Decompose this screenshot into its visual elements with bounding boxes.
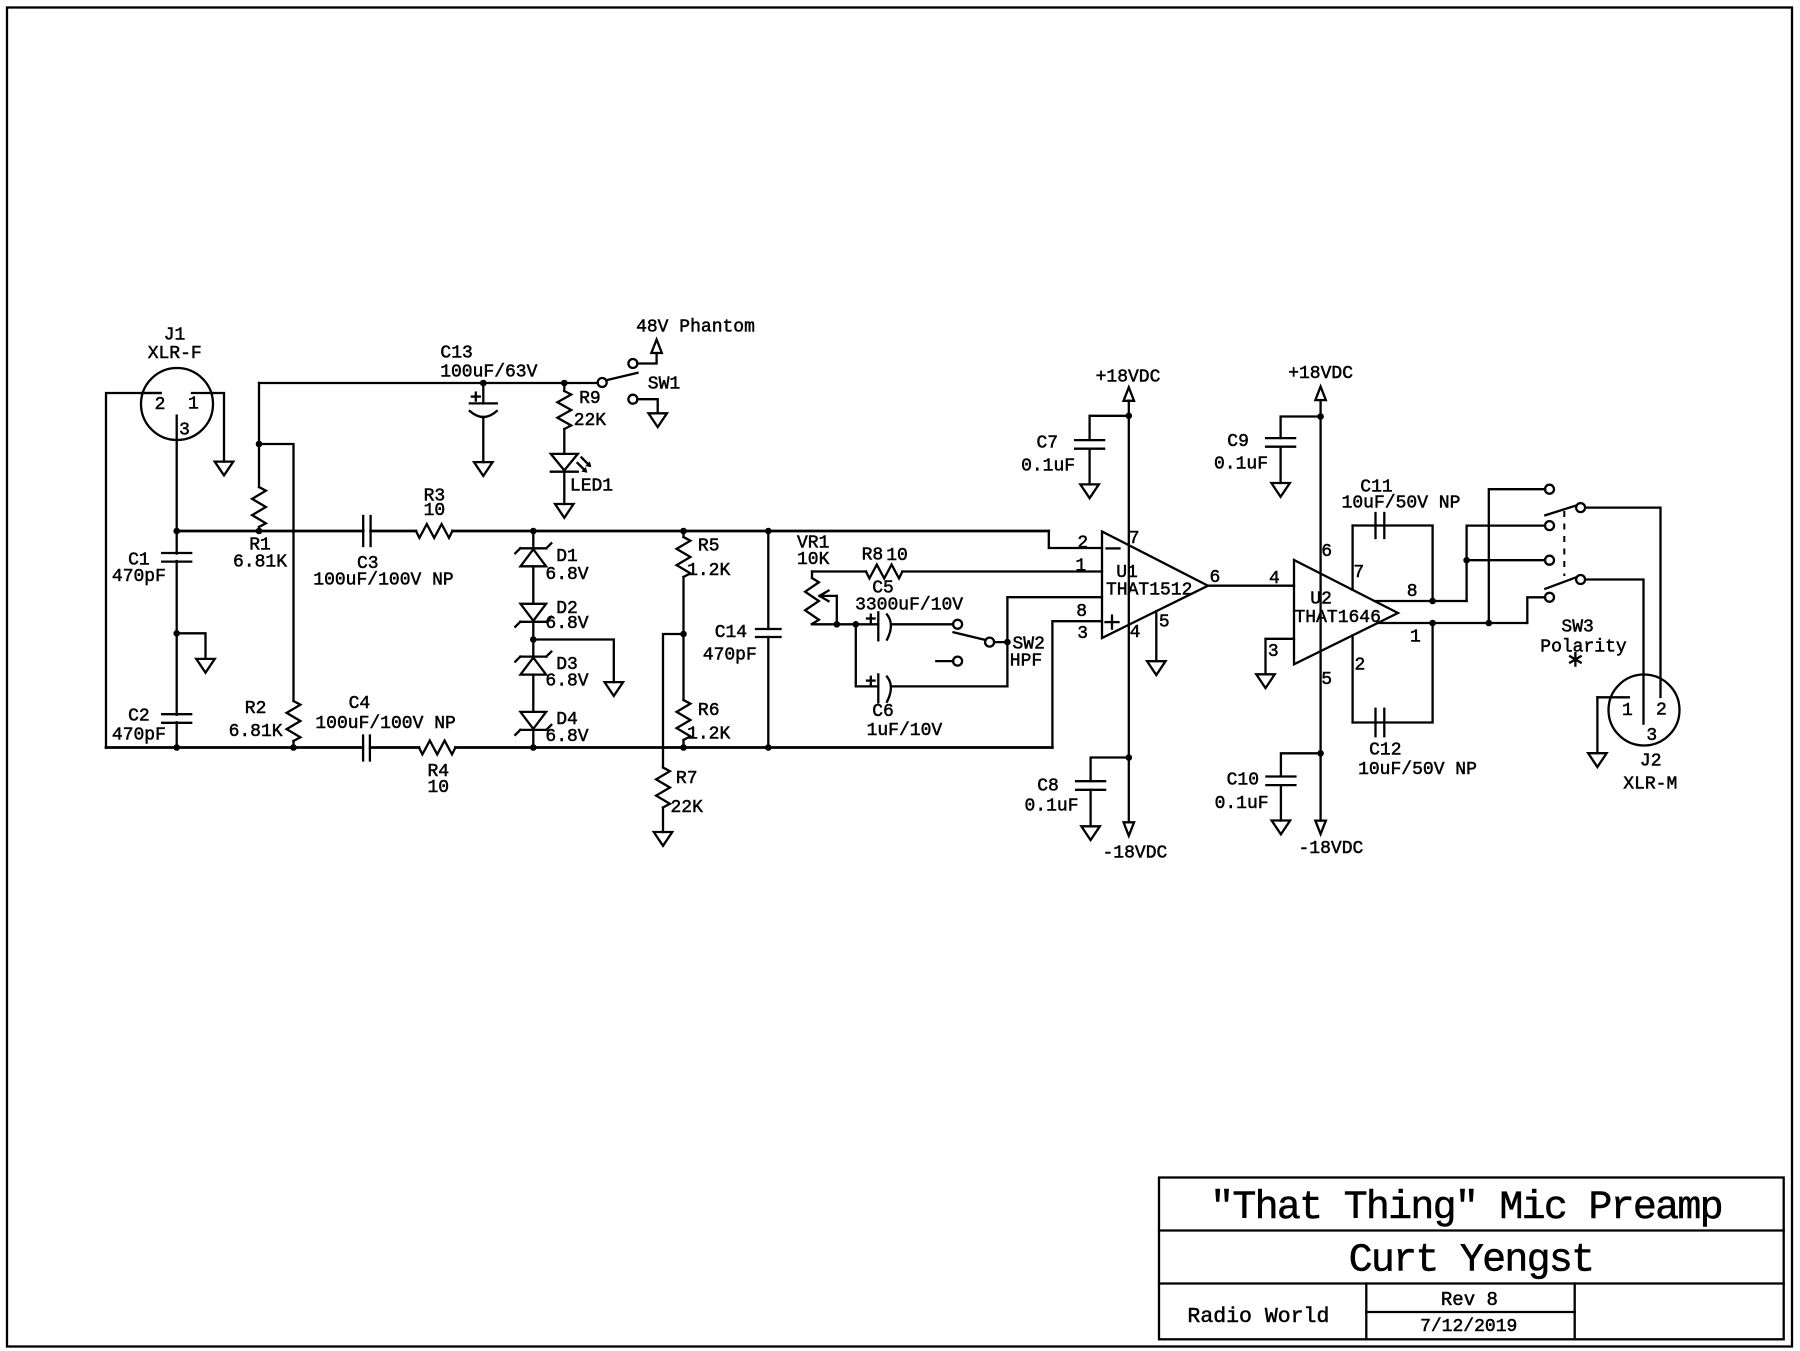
wire SW3 c1 branch — [1489, 489, 1545, 623]
capacitor C2 470pF — [162, 713, 191, 715]
svg-text:4: 4 — [1269, 569, 1280, 589]
junction C13 — [480, 380, 487, 387]
VR1 wiper arrow — [820, 595, 837, 597]
junction D1 top — [530, 528, 537, 535]
ground at U2 pin3 — [1256, 674, 1275, 688]
capacitor C1 470pF — [162, 552, 191, 554]
svg-text:C9: C9 — [1227, 432, 1249, 452]
wire U2 pin3 to ground — [1266, 639, 1295, 675]
svg-text:C6: C6 — [872, 702, 894, 722]
capacitor C10 0.1uF — [1266, 775, 1295, 777]
wire C10 to ground — [1280, 785, 1282, 820]
zener diode D1 6.8V — [520, 547, 546, 549]
wire C6 branch — [856, 624, 879, 686]
junction D4/rail — [530, 744, 537, 751]
svg-text:J1: J1 — [164, 326, 186, 346]
svg-text:1: 1 — [1622, 701, 1633, 721]
svg-text:3: 3 — [1268, 642, 1279, 662]
wire pin1 line with R8 — [812, 570, 866, 572]
ground below C8 — [1081, 826, 1100, 840]
svg-text:2: 2 — [1656, 700, 1667, 720]
wire C1 top — [176, 531, 178, 554]
svg-text:Polarity: Polarity — [1540, 638, 1627, 658]
wire ground tap — [177, 633, 206, 659]
svg-text:C7: C7 — [1036, 434, 1058, 454]
wire SW3 c4 branch — [1467, 559, 1545, 561]
wire jog to U1 pin2 — [1049, 531, 1102, 548]
wire C9 to ground — [1279, 447, 1281, 483]
svg-text:1.2K: 1.2K — [687, 724, 730, 744]
svg-text:100uF/100V NP: 100uF/100V NP — [315, 714, 455, 734]
svg-text:2: 2 — [155, 395, 166, 415]
svg-text:100uF/100V NP: 100uF/100V NP — [313, 571, 453, 591]
wire U2 pin6/pin5 vertical — [1319, 400, 1321, 753]
wire zener mid ground tap — [533, 640, 614, 683]
power arrow -18VDC U2 — [1315, 821, 1326, 835]
svg-text:6.8V: 6.8V — [545, 672, 588, 692]
junction R6/rail — [680, 744, 687, 751]
wire C7 to ground — [1088, 449, 1090, 485]
capacitor C7 0.1uF — [1075, 439, 1104, 441]
wire D2 to mid junction — [532, 622, 534, 640]
U1 minus symbol — [1107, 547, 1120, 549]
svg-text:THAT1646: THAT1646 — [1294, 608, 1380, 628]
svg-text:470pF: 470pF — [112, 567, 166, 587]
wire C2 to bottom rail — [176, 722, 178, 747]
capacitor C13 100uF/63V electrolytic — [482, 383, 484, 403]
ground at J1 pin1 — [215, 462, 234, 476]
connector J2 XLR-M — [1609, 675, 1680, 746]
wire LED1 to ground — [563, 472, 565, 504]
svg-text:C13: C13 — [440, 343, 472, 363]
wire U2 pin8 stub — [1374, 600, 1466, 602]
LED1 — [551, 454, 578, 471]
ground below C1 — [196, 659, 215, 673]
resistor R9 22K — [563, 383, 565, 391]
svg-text:470pF: 470pF — [703, 645, 757, 665]
ground at zener mid tap — [605, 682, 624, 696]
junction pin1/SW3 c1 branch — [1486, 620, 1493, 627]
resistor R5 1.2K — [682, 531, 684, 537]
svg-text:-18VDC: -18VDC — [1298, 839, 1363, 859]
switch SW1 — [598, 378, 607, 387]
op-amp U1 THAT1512 — [1102, 532, 1208, 639]
svg-text:SW1: SW1 — [648, 374, 680, 394]
svg-text:1uF/10V: 1uF/10V — [867, 721, 943, 741]
wire D4 to rail — [532, 730, 534, 748]
junction C14 top — [765, 528, 772, 535]
svg-text:HPF: HPF — [1010, 652, 1042, 672]
junction +18 U2 — [1317, 413, 1324, 420]
junction SW2 pole — [1004, 639, 1011, 646]
junction -18 U2 — [1317, 750, 1324, 757]
wire C8 to ground — [1089, 790, 1091, 827]
svg-text:C2: C2 — [128, 707, 150, 727]
power arrow -18VDC U1 — [1124, 822, 1135, 836]
svg-text:6.8V: 6.8V — [545, 565, 588, 585]
svg-text:THAT1512: THAT1512 — [1106, 581, 1192, 601]
svg-text:C12: C12 — [1369, 741, 1401, 761]
wire bottom rail — [106, 746, 363, 749]
svg-text:C4: C4 — [349, 694, 371, 714]
wire phantom rail — [259, 382, 598, 384]
junction C6 branch — [853, 621, 860, 628]
svg-text:1: 1 — [1075, 557, 1086, 577]
resistor R2 6.81K — [287, 701, 301, 741]
resistor R4 10 — [419, 741, 455, 755]
potentiometer VR1 10K — [811, 572, 813, 579]
svg-text:R8: R8 — [862, 546, 884, 566]
svg-text:0.1uF: 0.1uF — [1024, 796, 1078, 816]
switch SW3 contacts — [1545, 485, 1554, 494]
svg-text:470pF: 470pF — [112, 726, 166, 746]
junction VR1 wiper/bottom — [834, 621, 841, 628]
wire to -18VDC arrow U1 — [1128, 758, 1130, 823]
wire SW3 pole top to J2 pin2 — [1585, 508, 1660, 697]
capacitor C8 0.1uF — [1076, 780, 1105, 782]
svg-text:C14: C14 — [715, 623, 747, 643]
svg-text:10: 10 — [886, 546, 908, 566]
svg-text:Curt Yengst: Curt Yengst — [1349, 1238, 1594, 1283]
svg-text:22K: 22K — [670, 798, 703, 818]
wire phantom feed up — [258, 383, 260, 444]
svg-text:10K: 10K — [797, 550, 830, 570]
svg-text:LED1: LED1 — [570, 477, 613, 497]
ground below C10 — [1272, 821, 1291, 835]
wire C11 top — [1353, 526, 1433, 602]
svg-text:C10: C10 — [1227, 771, 1259, 791]
ground below C9 — [1271, 483, 1290, 497]
capacitor C6 1uF/10V electrolytic — [877, 674, 879, 702]
svg-text:2: 2 — [1354, 655, 1365, 675]
svg-text:22K: 22K — [574, 411, 607, 431]
wire D3-D4 — [532, 675, 534, 712]
capacitor C3 100uF/100V NP — [362, 516, 364, 546]
capacitor C5 3300uF/10V electrolytic — [877, 612, 879, 640]
wire D1-D2 — [532, 566, 534, 604]
svg-text:-18VDC: -18VDC — [1102, 844, 1167, 864]
junction +18 U1 — [1126, 413, 1133, 420]
svg-text:7: 7 — [1353, 563, 1364, 583]
wire R1 to R2 top — [259, 444, 294, 701]
svg-text:3300uF/10V: 3300uF/10V — [855, 596, 963, 616]
junction D2/D3 ground tap — [530, 636, 537, 643]
svg-text:"That Thing" Mic Preamp: "That Thing" Mic Preamp — [1210, 1186, 1722, 1231]
svg-text:R2: R2 — [245, 699, 267, 719]
ground at J2 pin1 — [1588, 753, 1607, 767]
ground at U1 pin5 — [1147, 661, 1166, 675]
svg-text:6: 6 — [1321, 542, 1332, 562]
wire C14 bottom — [767, 637, 769, 748]
resistor R6 1.2K — [682, 634, 684, 700]
wire C8 branch — [1091, 758, 1129, 782]
wire SW3 c3 branch — [1467, 526, 1545, 601]
capacitor C14 470pF — [756, 628, 781, 630]
svg-text:7: 7 — [1129, 529, 1140, 549]
wire VR1 bottom — [811, 623, 813, 626]
switch SW2 HPF — [953, 620, 962, 629]
capacitor C11 10uF/50V NP — [1374, 513, 1376, 538]
ground below SW1 — [648, 413, 667, 427]
wire C12 bottom — [1353, 623, 1433, 723]
wire main upper rail — [177, 530, 364, 533]
svg-text:5: 5 — [1159, 613, 1170, 633]
wire D1 top — [532, 531, 534, 548]
op-amp U2 THAT1646 — [1294, 560, 1398, 664]
wire J1 pin2 to bottom rail — [106, 393, 161, 748]
junction R1 top — [256, 441, 263, 448]
svg-text:Radio World: Radio World — [1187, 1305, 1329, 1329]
svg-text:4: 4 — [1130, 623, 1141, 643]
junction R9 — [561, 380, 568, 387]
wire SW2 unconnected throw stub — [936, 660, 953, 662]
ground below R7 — [654, 832, 673, 846]
svg-text:0.1uF: 0.1uF — [1021, 457, 1075, 477]
resistor R8 10 — [866, 565, 902, 579]
power arrow +18VDC U2 — [1315, 387, 1326, 401]
wire C5 to SW2 top throw — [892, 623, 954, 625]
resistor R3 10 — [416, 524, 452, 538]
svg-text:10: 10 — [427, 778, 449, 798]
svg-text:0.1uF: 0.1uF — [1215, 794, 1269, 814]
junction C14/rail — [765, 744, 772, 751]
svg-text:0.1uF: 0.1uF — [1214, 454, 1268, 474]
svg-text:1: 1 — [188, 395, 199, 415]
wire SW1 lower throw to ground — [637, 399, 657, 413]
junction R1 bottom on main wire — [256, 528, 263, 535]
wire bottom rail to U1 pin3 — [1052, 621, 1102, 747]
junction C2/rail — [173, 744, 180, 751]
wire SW3 pole bottom to J2 pin3 — [1585, 580, 1643, 724]
junction R5 top — [680, 528, 687, 535]
wire to D3 — [532, 640, 534, 657]
zener diode D2 6.8V — [520, 621, 546, 623]
resistor R7 22K — [656, 768, 670, 808]
svg-text:R9: R9 — [579, 389, 601, 409]
wire U1 pin5 to ground — [1155, 611, 1157, 661]
svg-text:3: 3 — [179, 421, 190, 441]
wire U2 pin2 to C12 — [1351, 635, 1353, 722]
junction below C1 — [173, 630, 180, 637]
svg-text:7/12/2019: 7/12/2019 — [1420, 1317, 1517, 1337]
svg-text:R7: R7 — [676, 769, 698, 789]
svg-text:Rev 8: Rev 8 — [1441, 1289, 1498, 1311]
svg-text:6.8V: 6.8V — [545, 727, 588, 747]
junction pin1/C12 — [1429, 620, 1436, 627]
power arrow +18VDC U1 — [1124, 387, 1135, 401]
svg-text:48V Phantom: 48V Phantom — [636, 318, 755, 338]
wire SW2 pole to U1 pin8 — [994, 641, 1007, 643]
wire C10 branch — [1281, 753, 1321, 776]
wire U2 pin7 to C11 — [1351, 526, 1353, 590]
junction R2/rail — [290, 744, 297, 751]
svg-text:R5: R5 — [698, 537, 720, 557]
wire C6 to SW2 pole line — [892, 685, 1008, 687]
capacitor C4 100uF/100V NP — [362, 736, 364, 761]
svg-text:6.8V: 6.8V — [545, 614, 588, 634]
SW3 lever top — [1545, 505, 1576, 515]
wire J1 pin3 down to node — [176, 440, 178, 531]
svg-text:+18VDC: +18VDC — [1096, 368, 1161, 388]
wire C9 branch — [1281, 417, 1321, 439]
junction R5/R6/R7 — [680, 631, 687, 638]
junction pin8/C11 — [1429, 598, 1436, 605]
svg-text:8: 8 — [1076, 602, 1087, 622]
svg-text:+18VDC: +18VDC — [1288, 364, 1353, 384]
power arrow 48V Phantom — [651, 340, 662, 354]
connector J1 XLR-F — [141, 368, 213, 440]
svg-text:100uF/63V: 100uF/63V — [440, 363, 537, 383]
svg-text:3: 3 — [1077, 624, 1088, 644]
wire C1 to ground tap — [176, 561, 178, 633]
title block frame — [1159, 1178, 1784, 1340]
ground below C13 — [474, 462, 493, 476]
svg-text:SW3: SW3 — [1561, 618, 1593, 638]
svg-text:10uF/50V NP: 10uF/50V NP — [1358, 760, 1477, 780]
wire R7 branch — [663, 634, 684, 768]
wire SW1 top throw to 48V arrow — [637, 353, 656, 364]
svg-text:C8: C8 — [1037, 777, 1059, 797]
wire to C2 — [176, 633, 178, 714]
wire SW3 c6 branch — [1527, 597, 1545, 623]
SW3 lever bottom — [1545, 577, 1576, 589]
wire J1 pin1 to ground — [213, 393, 224, 462]
svg-text:R6: R6 — [698, 701, 720, 721]
node junction pin3/C1/main — [173, 528, 180, 535]
svg-text:2: 2 — [1077, 534, 1088, 554]
U1 plus symbol — [1106, 621, 1119, 623]
svg-text:6.81K: 6.81K — [233, 553, 287, 573]
svg-text:8: 8 — [1407, 582, 1418, 602]
capacitor C9 0.1uF — [1266, 437, 1295, 439]
svg-text:1.2K: 1.2K — [687, 561, 730, 581]
zener diode D3 6.8V — [520, 655, 546, 657]
svg-text:J2: J2 — [1640, 751, 1662, 771]
wire C7 branch — [1090, 416, 1129, 440]
svg-text:XLR-M: XLR-M — [1623, 775, 1677, 795]
SW3 gang dashed link — [1563, 511, 1565, 576]
svg-text:1: 1 — [1410, 628, 1421, 648]
ground below LED1 — [555, 504, 574, 518]
wire to -18VDC arrow U2 — [1319, 753, 1321, 820]
svg-text:10: 10 — [424, 501, 446, 521]
wire U1 output to U2 — [1208, 585, 1294, 587]
wire J2 pin1 to ground — [1596, 697, 1598, 753]
svg-text:5: 5 — [1321, 670, 1332, 690]
wire C14 top — [767, 531, 769, 629]
wire U2 pin1 stub — [1377, 622, 1527, 624]
resistor R1 6.81K — [258, 444, 260, 487]
svg-text:3: 3 — [1646, 726, 1657, 746]
svg-text:6.81K: 6.81K — [229, 722, 283, 742]
svg-text:XLR-F: XLR-F — [148, 344, 202, 364]
wire U1 pin7/pin4 vertical — [1128, 401, 1130, 758]
SW3 asterisk — [1574, 653, 1576, 665]
junction c4 branch — [1463, 557, 1470, 564]
zener diode D4 6.8V — [520, 729, 546, 731]
capacitor C12 10uF/50V NP — [1374, 709, 1376, 737]
svg-text:10uF/50V NP: 10uF/50V NP — [1342, 494, 1461, 514]
junction -18 U1 — [1126, 754, 1133, 761]
ground below C7 — [1080, 484, 1099, 498]
